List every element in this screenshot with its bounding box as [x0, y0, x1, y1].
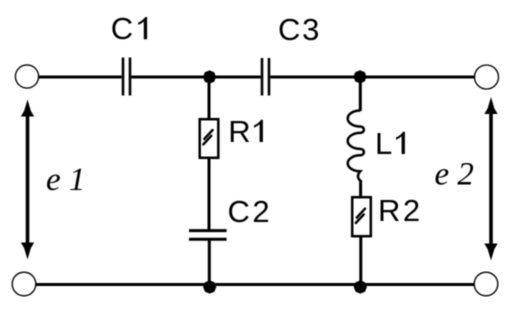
resistor R1 hatch marks [203, 130, 212, 144]
node A junction dot [203, 70, 216, 83]
svg-text:C: C [111, 11, 133, 46]
wire node B down to L1 [359, 77, 362, 111]
svg-text:C3: C3 [278, 12, 321, 47]
wire top-left segment [39, 76, 122, 79]
wire node B to terminal TR [360, 76, 475, 79]
wire L1 to R2 [359, 180, 362, 197]
terminal TL [15, 65, 38, 88]
svg-text:C2: C2 [228, 194, 273, 229]
wire bottom rail [36, 283, 475, 286]
capacitor C2 [189, 231, 227, 240]
svg-text:R2: R2 [378, 193, 423, 228]
wire node A down to R1 [208, 77, 211, 119]
terminal BR [474, 272, 498, 296]
terminal BL [12, 272, 36, 296]
wire C2 to node C [208, 241, 211, 287]
capacitor C3 [262, 58, 269, 96]
wire C1 to node A [131, 76, 209, 79]
wire C3 to node B [270, 76, 360, 79]
capacitor C1 [123, 58, 130, 96]
resistor R2 hatch marks [356, 209, 365, 223]
node C junction dot [203, 280, 216, 293]
e1 arrow (double-headed) [21, 100, 34, 260]
svg-text:L: L [375, 126, 392, 161]
svg-text:e 2: e 2 [435, 157, 474, 193]
terminal TR [475, 65, 499, 89]
svg-text:e 1: e 1 [46, 162, 85, 198]
wire R1 to C2 [208, 159, 211, 230]
resistor R2 [352, 197, 371, 236]
wire R2 to node D [359, 237, 362, 287]
svg-text:R: R [228, 114, 250, 149]
node B junction dot [353, 70, 366, 83]
e2 arrow (double-headed) [484, 97, 497, 261]
resistor R1 [200, 119, 219, 158]
inductor L1 [348, 111, 364, 182]
node D junction dot [354, 280, 367, 293]
wire node A to C3 [210, 76, 261, 79]
